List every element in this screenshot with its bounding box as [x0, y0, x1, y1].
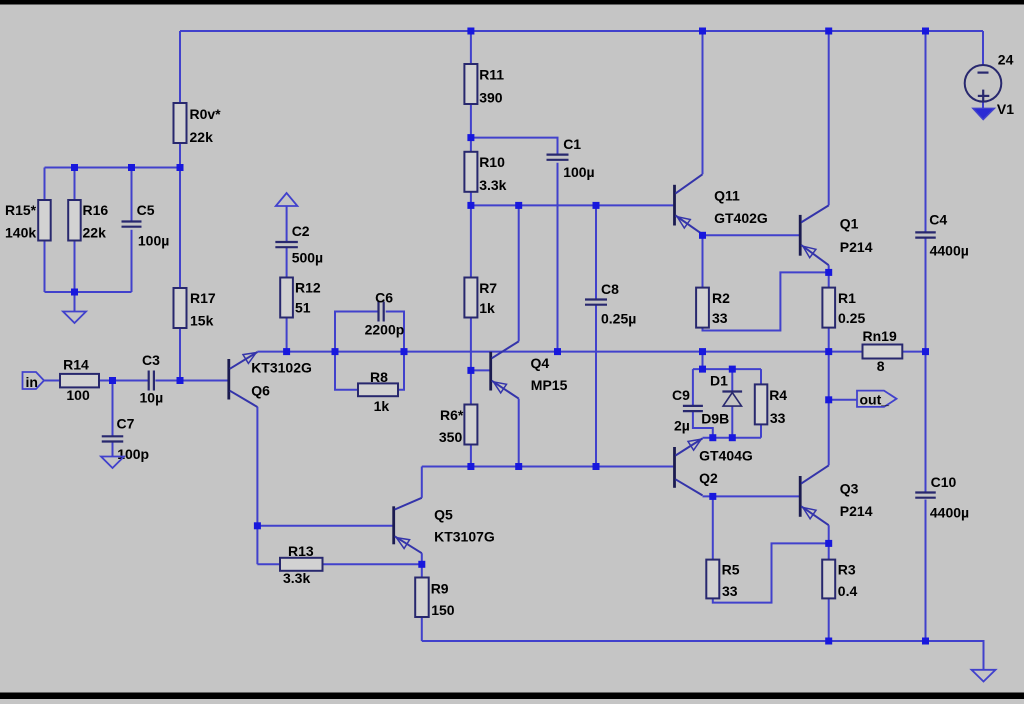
wire R8 right loop	[398, 352, 404, 390]
svg-text:C6: C6	[375, 290, 393, 306]
wire C1 top lead	[471, 138, 558, 155]
resistor R15*	[5, 200, 51, 241]
wire input row through R14	[44, 380, 149, 382]
svg-text:8: 8	[877, 358, 885, 374]
wire C5 bottom lead	[131, 230, 133, 292]
wire R5 top leg	[712, 496, 714, 559]
svg-text:Q4: Q4	[531, 355, 550, 371]
svg-text:C8: C8	[601, 281, 619, 297]
wire Q11-Q1 base row	[703, 234, 800, 236]
svg-text:R2: R2	[712, 290, 730, 306]
transistor Q4 MP15	[491, 341, 568, 398]
transistor Q6 KT3102G	[229, 352, 312, 407]
wire R4 bottom lead	[760, 424, 762, 437]
svg-text:C3: C3	[142, 352, 160, 368]
svg-text:KT3107G: KT3107G	[434, 528, 495, 544]
node y205 / Q4 collector	[515, 202, 522, 209]
svg-text:22k: 22k	[190, 129, 214, 145]
wire C4-C10 vertical middle	[925, 238, 927, 493]
wire row y=466 to Q2 base	[422, 466, 674, 468]
node bias bottom / ground	[71, 289, 78, 296]
svg-text:10µ: 10µ	[140, 390, 164, 406]
transistor Q5 KT3107G	[394, 498, 495, 553]
resistor R16	[68, 200, 108, 241]
wire R2 bottom jog to Q1 emitter	[703, 272, 829, 330]
svg-text:P214: P214	[840, 503, 873, 519]
node Q3 base / R5	[709, 493, 716, 500]
wire C9 top lead	[692, 369, 694, 406]
resistor R11	[464, 64, 504, 106]
resistor R10	[464, 152, 506, 193]
node Q1 emitter / R1	[825, 269, 832, 276]
svg-text:R13: R13	[288, 543, 314, 559]
wire C8 bottom lead	[595, 305, 597, 467]
svg-text:R0v*: R0v*	[190, 106, 222, 122]
power arrow (V1 negative terminal)	[973, 108, 995, 119]
wire C2-R12 link	[286, 247, 288, 351]
wire C1 bottom lead to mid rail	[557, 163, 559, 352]
node out port tap	[825, 396, 832, 403]
svg-text:2µ: 2µ	[674, 417, 690, 433]
node y466 / C8	[593, 463, 600, 470]
resistor Rn19	[863, 328, 903, 374]
node D-network top D1	[729, 366, 736, 373]
svg-text:51: 51	[295, 300, 311, 316]
wire Q1 emitter to R1	[828, 265, 830, 287]
svg-text:GT404G: GT404G	[699, 447, 753, 463]
svg-text:R11: R11	[479, 67, 504, 83]
node bias row / R16	[71, 164, 78, 171]
svg-text:C9: C9	[672, 387, 690, 403]
wire V1 top lead	[982, 31, 984, 66]
node bias row / C5	[128, 164, 135, 171]
wire C10 bottom lead	[925, 500, 927, 642]
node bottom rail / R3	[825, 638, 832, 645]
svg-text:4400µ: 4400µ	[930, 504, 969, 520]
bottom window border bar	[0, 693, 1024, 700]
svg-text:Q1: Q1	[840, 216, 859, 232]
resistor R14	[60, 356, 99, 403]
resistor R0v*	[174, 103, 222, 145]
svg-text:R9: R9	[431, 580, 449, 596]
svg-text:100µ: 100µ	[138, 232, 169, 248]
wire C4-C10 vertical upper	[925, 31, 927, 232]
diode D1 D9B	[701, 373, 742, 427]
svg-text:3.3k: 3.3k	[283, 570, 310, 586]
resistor R12	[280, 278, 321, 318]
wire Q5 base row	[257, 525, 392, 527]
svg-text:3.3k: 3.3k	[479, 177, 506, 193]
svg-text:R1: R1	[838, 290, 856, 306]
svg-text:0.4: 0.4	[838, 583, 858, 599]
svg-text:33: 33	[722, 583, 738, 599]
wire Q4 emitter drop	[518, 399, 520, 467]
wire R16 leg	[74, 168, 76, 293]
svg-text:100: 100	[66, 387, 90, 403]
node bottom rail / C10	[922, 638, 929, 645]
wire out branch vertical	[828, 352, 830, 466]
voltage source V1 24V	[965, 52, 1015, 118]
wire Q6 collector drop	[256, 407, 258, 565]
svg-text:R8: R8	[370, 369, 388, 385]
node y466 / R6	[467, 463, 474, 470]
svg-text:0.25: 0.25	[838, 310, 865, 326]
resistor R1	[822, 288, 865, 328]
svg-text:22k: 22k	[83, 225, 107, 241]
wire Q2 emitter to Q3 base row	[703, 495, 800, 497]
transistor Q11 GT402G	[675, 174, 768, 234]
node mid rail / C1	[554, 348, 561, 355]
svg-text:KT3102G: KT3102G	[251, 360, 312, 376]
wire R4 top lead	[760, 369, 762, 384]
node mid rail / C4-C10	[922, 348, 929, 355]
resistor R2	[696, 288, 730, 328]
wire R8 branch left loop	[335, 352, 358, 390]
wire C7 top lead	[112, 381, 114, 437]
wire D-network bottom row	[703, 437, 762, 439]
wire R1 bottom to mid rail	[828, 328, 830, 352]
capacitor C9	[672, 387, 703, 434]
svg-text:P214: P214	[840, 239, 873, 255]
svg-text:R14: R14	[63, 356, 89, 372]
wire Q5 collector riser	[421, 467, 423, 498]
svg-text:GT402G: GT402G	[714, 210, 768, 226]
wire V1 bottom lead	[982, 102, 984, 109]
svg-text:33: 33	[770, 410, 786, 426]
svg-text:Q3: Q3	[840, 481, 859, 497]
svg-text:500µ: 500µ	[292, 249, 323, 265]
node mid rail / C6-R8 right	[401, 348, 408, 355]
svg-text:150: 150	[431, 602, 455, 618]
svg-text:R5: R5	[722, 562, 740, 578]
wire Q3 emitter to R3	[828, 525, 830, 559]
svg-text:1k: 1k	[479, 300, 495, 316]
resistor R13	[280, 543, 323, 586]
resistor R6*	[439, 405, 478, 445]
node top rail / Q11 collector	[699, 28, 706, 35]
wire R15 leg	[44, 168, 46, 293]
svg-text:1k: 1k	[374, 398, 390, 414]
transistor Q2 GT404G	[675, 438, 753, 495]
svg-text:V1: V1	[997, 101, 1014, 117]
wire bottom ground rail	[422, 641, 984, 670]
wire D1 top lead	[731, 369, 733, 391]
svg-text:C2: C2	[292, 223, 310, 239]
node Q11 emitter / base row	[699, 232, 706, 239]
wire R5 bottom jog to Q3 emitter node	[713, 543, 829, 602]
capacitor C10	[915, 474, 969, 520]
wire C6 right loop	[386, 312, 404, 352]
svg-text:C7: C7	[117, 416, 135, 432]
svg-text:R6*: R6*	[440, 407, 464, 423]
power arrow (C2 top)	[276, 193, 298, 206]
node mid rail / C6-R8 left	[332, 348, 339, 355]
node bias row / R0v-R17	[177, 164, 184, 171]
wire C3 right lead to node	[155, 380, 228, 382]
wire row y=205 to Q11 base	[471, 204, 673, 206]
node y205 / C8	[593, 202, 600, 209]
wire C8 top lead	[595, 205, 597, 299]
node Q4 base / R7-R6	[467, 367, 474, 374]
port in	[23, 372, 45, 390]
svg-text:390: 390	[479, 90, 503, 106]
svg-text:D1: D1	[710, 373, 728, 389]
top window border bar	[0, 0, 1024, 5]
svg-text:D9B: D9B	[701, 411, 729, 427]
wire Q4 base link	[471, 369, 490, 371]
wire C9 bottom jog	[693, 411, 713, 437]
svg-text:Q11: Q11	[714, 188, 740, 204]
node y466 / Q4 emitter	[515, 463, 522, 470]
wire R9 leg	[421, 564, 423, 641]
svg-text:24: 24	[998, 52, 1014, 68]
node Q5 base / Q6 collector	[254, 522, 261, 529]
node top rail / C4	[922, 28, 929, 35]
capacitor C1	[547, 136, 595, 180]
wire Q5 emitter drop	[421, 553, 423, 564]
resistor R5	[706, 560, 739, 599]
node mid rail / R1-out	[825, 348, 832, 355]
svg-text:R15*: R15*	[5, 202, 37, 218]
svg-text:R4: R4	[769, 387, 787, 403]
wire bias bottom row	[45, 291, 132, 293]
port out	[857, 391, 897, 408]
wire C7 bottom lead	[112, 442, 114, 457]
capacitor C6	[365, 290, 405, 338]
svg-text:140k: 140k	[5, 225, 36, 241]
svg-text:33: 33	[712, 310, 728, 326]
capacitor C4	[915, 212, 969, 259]
capacitor C7	[102, 416, 149, 462]
ground (bias network)	[63, 312, 86, 324]
resistor R17	[174, 288, 216, 329]
svg-text:4400µ: 4400µ	[930, 242, 969, 258]
wire D-network top row	[693, 368, 761, 370]
ground (input)	[101, 457, 124, 469]
resistor R9	[415, 578, 455, 619]
node input / R17-C3	[177, 377, 184, 384]
svg-text:MP15: MP15	[531, 377, 568, 393]
wire C6 branch top loop	[335, 312, 379, 352]
capacitor C2	[275, 223, 323, 266]
wire C2 power arrow lead	[286, 206, 288, 242]
transistor Q1 P214	[800, 205, 873, 265]
svg-text:Q2: Q2	[699, 470, 718, 486]
node Q3 emitter / R3-R5	[825, 540, 832, 547]
wire Q11 collector riser	[702, 31, 704, 174]
transistor Q3 P214	[800, 465, 873, 525]
resistor R8	[358, 369, 398, 414]
node R11-R10 / C1	[467, 134, 474, 141]
capacitor C8	[585, 281, 636, 327]
svg-text:350: 350	[439, 429, 463, 445]
ground (bottom rail)	[972, 670, 996, 682]
resistor R7	[464, 278, 497, 318]
wire R3 bottom leg	[828, 598, 830, 641]
svg-text:C10: C10	[931, 474, 957, 490]
svg-text:0.25µ: 0.25µ	[601, 311, 636, 327]
wire top +24V rail	[180, 30, 983, 32]
svg-text:R17: R17	[190, 290, 216, 306]
wire Q1 collector riser	[828, 31, 830, 205]
svg-text:C4: C4	[929, 212, 947, 228]
wire R11-R10-R7-R6 vertical chain	[470, 31, 472, 467]
svg-text:2200p: 2200p	[365, 321, 405, 337]
svg-text:15k: 15k	[190, 313, 214, 329]
resistor R4	[755, 384, 788, 426]
svg-text:R7: R7	[479, 280, 497, 296]
node top rail / R11	[467, 28, 474, 35]
svg-text:R3: R3	[838, 562, 856, 578]
node D-network bottom C9	[709, 434, 716, 441]
wire Q11 emitter to R2	[702, 234, 704, 288]
svg-text:Rn19: Rn19	[863, 328, 897, 344]
svg-text:R16: R16	[83, 202, 109, 218]
wire Q4 collector riser	[518, 205, 520, 341]
capacitor C3	[140, 352, 164, 405]
wire D1 bottom lead	[731, 406, 733, 438]
node D-network top left	[699, 366, 706, 373]
svg-text:R12: R12	[295, 280, 321, 296]
resistor R3	[822, 560, 857, 599]
node y205 / R10-R7	[467, 202, 474, 209]
wire D-network riser	[702, 352, 704, 370]
node D-network bottom D1	[729, 434, 736, 441]
svg-text:R10: R10	[479, 154, 505, 170]
node mid rail / R12	[283, 348, 290, 355]
svg-text:out_: out_	[860, 391, 890, 407]
node input / C7	[109, 377, 116, 384]
node Q5 emitter / R13-R9	[418, 561, 425, 568]
svg-text:Q5: Q5	[434, 506, 453, 522]
node mid rail / D-network	[699, 348, 706, 355]
wire left branch R0v-R17 vertical	[179, 31, 181, 381]
wire out port stub	[829, 399, 857, 401]
svg-text:in: in	[26, 374, 38, 390]
svg-text:C5: C5	[137, 202, 155, 218]
wire ground stub left	[74, 292, 76, 312]
wire mid rail y=351.6	[257, 351, 925, 353]
wire R13 row	[257, 563, 421, 565]
node top rail / Q1 collector	[825, 28, 832, 35]
svg-text:Q6: Q6	[251, 383, 270, 399]
svg-text:C1: C1	[563, 136, 581, 152]
svg-text:100µ: 100µ	[563, 164, 594, 180]
wire bias row y=167	[45, 167, 181, 169]
capacitor C5	[122, 202, 170, 248]
wire C5 top lead	[131, 168, 133, 222]
